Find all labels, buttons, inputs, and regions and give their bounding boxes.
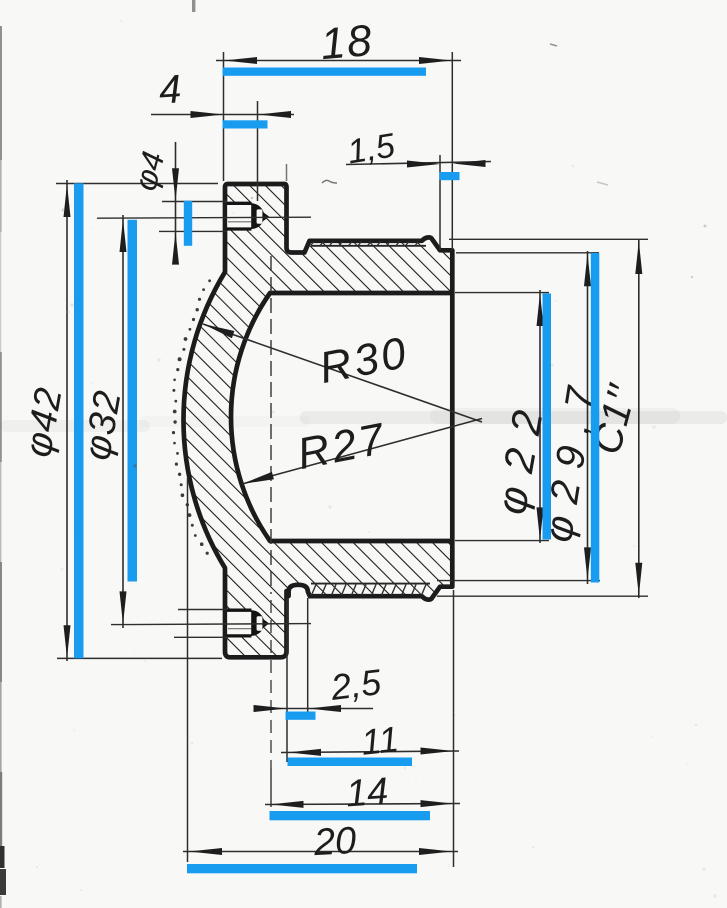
right side extension lines [455,292,549,294]
dim 18 [216,60,461,62]
small pen squiggle above barrel [322,180,337,183]
scanner smudge band [300,411,727,424]
stipple dots along spherical front surface [208,279,211,282]
blue highlight bar phi22 [543,294,552,540]
blue highlight bar 18 [223,68,427,76]
dim phi4 (vertical) [175,142,177,263]
blue highlight bar 2,5 [286,712,316,720]
dim phi42 [66,180,68,661]
blue highlight bar 14 [270,811,431,820]
blue highlight bar 11 [288,758,413,767]
screw hole edge stubs [162,201,227,203]
dim 4 [151,114,294,116]
dim 11 [281,751,459,753]
svg-text:14: 14 [345,771,390,816]
dim 2,5 [256,708,373,710]
svg-text:2,5: 2,5 [328,661,385,708]
phi32 / screw axis lines [97,217,311,218]
thread line top [311,245,426,247]
thread ticks bottom [312,585,317,596]
scan blob bottom-left [0,846,5,868]
dim 20 [183,851,458,853]
dim 1,5 [346,162,491,165]
screw hole bottom (flange) [227,610,252,636]
radius leader R30 [203,324,482,422]
part cross-section: flanged lens cell, hatched section [183,184,452,657]
blue highlight bar 20 [187,864,417,873]
svg-text:20: 20 [312,820,357,864]
blue highlight bar phi32 [128,220,138,582]
svg-text:18: 18 [319,16,376,69]
blue highlight bar phi4 [184,201,192,246]
blue highlight bar 4 [223,120,268,128]
phi42 extension lines [56,183,218,185]
radius leader R27 [242,419,482,485]
blue highlight bar 1,5 [440,172,460,180]
svg-text:4: 4 [157,67,182,112]
dim phi29,7 [587,251,589,584]
dim phi32 [122,215,124,628]
scan edge left [0,26,2,160]
dim phi22 [539,290,541,543]
blue highlight bar phi29,7 [591,253,600,583]
svg-text:11: 11 [359,718,400,763]
lens seat dash line [270,256,272,594]
tiny mark top [192,0,195,12]
paper noise [328,505,331,508]
screw hole top (flange) [227,203,252,229]
svg-text:1,5: 1,5 [345,127,398,172]
extension lines top [223,52,225,181]
dim 14 [265,804,460,805]
thread ticks top [311,242,314,246]
bottom extension lines [286,598,288,762]
thread line bottom [311,583,430,585]
blue highlight bar phi42 [74,183,84,658]
dim C1 inch [638,239,640,598]
